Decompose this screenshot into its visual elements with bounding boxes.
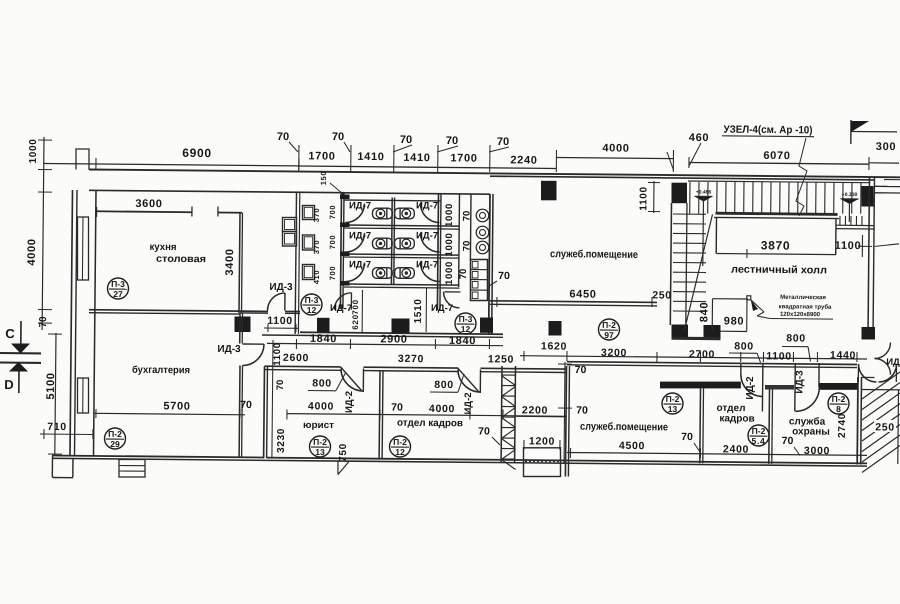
svg-text:П-2: П-2 [832, 394, 846, 404]
svg-text:6450: 6450 [569, 288, 596, 300]
svg-text:+0.466: +0.466 [696, 189, 712, 195]
svg-text:3000: 3000 [804, 445, 830, 457]
svg-text:70: 70 [575, 364, 587, 376]
svg-text:ИД-2: ИД-2 [463, 392, 474, 414]
svg-text:700: 700 [328, 266, 337, 281]
svg-text:12: 12 [395, 447, 405, 457]
svg-text:ИД-3: ИД-3 [217, 344, 241, 355]
svg-text:70: 70 [391, 401, 403, 413]
svg-text:столовая: столовая [156, 254, 206, 265]
svg-text:ИД-7: ИД-7 [349, 230, 371, 241]
svg-text:3200: 3200 [601, 347, 627, 359]
svg-text:370: 370 [312, 240, 321, 255]
svg-text:700: 700 [328, 235, 337, 250]
svg-text:70: 70 [277, 131, 289, 143]
svg-text:620: 620 [351, 314, 360, 330]
svg-text:П-2: П-2 [393, 437, 407, 447]
svg-text:ИД-7: ИД-7 [349, 200, 371, 211]
svg-text:D: D [4, 377, 14, 392]
svg-text:2900: 2900 [380, 333, 407, 345]
svg-text:12: 12 [307, 305, 317, 315]
svg-text:410: 410 [312, 270, 321, 285]
svg-text:6070: 6070 [763, 150, 790, 162]
svg-text:П-2: П-2 [108, 429, 122, 439]
svg-text:3870: 3870 [761, 238, 791, 252]
svg-text:750: 750 [338, 443, 349, 462]
svg-text:1410: 1410 [357, 151, 384, 163]
svg-text:2200: 2200 [522, 404, 548, 416]
svg-text:70: 70 [782, 435, 794, 447]
svg-text:300: 300 [876, 141, 897, 153]
svg-text:800: 800 [434, 379, 454, 391]
svg-text:800: 800 [312, 377, 332, 389]
svg-text:1510: 1510 [413, 298, 424, 323]
svg-text:1410: 1410 [403, 152, 430, 164]
svg-text:П-3: П-3 [459, 314, 473, 324]
svg-text:1100: 1100 [766, 350, 792, 362]
svg-text:250: 250 [652, 289, 672, 301]
svg-text:70: 70 [38, 316, 49, 328]
svg-text:Металлическая: Металлическая [780, 295, 826, 301]
svg-text:лестничный холл: лестничный холл [731, 264, 827, 277]
svg-text:П-2: П-2 [666, 394, 680, 404]
svg-text:3270: 3270 [398, 353, 424, 365]
svg-text:П-2: П-2 [752, 426, 766, 436]
svg-text:12: 12 [461, 324, 471, 334]
svg-text:ИД-7: ИД-7 [330, 303, 352, 314]
svg-text:3400: 3400 [224, 248, 236, 275]
svg-text:бухгалтерия: бухгалтерия [132, 364, 190, 377]
svg-text:П-3: П-3 [305, 295, 319, 305]
svg-text:800: 800 [786, 332, 806, 344]
svg-text:отдел кадров: отдел кадров [397, 418, 463, 430]
svg-text:70: 70 [461, 211, 472, 222]
svg-text:П-2: П-2 [313, 437, 327, 447]
svg-text:70: 70 [332, 131, 344, 143]
svg-text:1100: 1100 [638, 186, 649, 211]
svg-text:2600: 2600 [283, 352, 309, 364]
svg-text:97: 97 [604, 330, 614, 340]
svg-text:4000: 4000 [308, 400, 334, 412]
svg-text:120х120х8900: 120х120х8900 [780, 312, 821, 318]
svg-text:70: 70 [461, 241, 472, 252]
svg-text:980: 980 [724, 315, 745, 327]
svg-text:1250: 1250 [488, 353, 514, 365]
svg-text:4000: 4000 [26, 238, 38, 265]
svg-text:1100: 1100 [835, 240, 862, 252]
svg-text:служеб.помещение: служеб.помещение [550, 248, 638, 261]
svg-text:13: 13 [668, 404, 678, 414]
svg-text:УЗЕЛ-4(см. Ар -10): УЗЕЛ-4(см. Ар -10) [723, 124, 812, 137]
svg-text:840: 840 [698, 302, 710, 323]
svg-text:6900: 6900 [182, 146, 212, 160]
svg-text:1000: 1000 [444, 232, 455, 256]
svg-text:29: 29 [110, 439, 120, 449]
svg-text:150: 150 [319, 171, 328, 186]
svg-text:служеб.помещение: служеб.помещение [580, 421, 668, 434]
svg-text:2400: 2400 [723, 443, 749, 455]
svg-text:+0.308: +0.308 [842, 192, 858, 198]
svg-text:370: 370 [312, 208, 321, 223]
svg-text:1000: 1000 [28, 138, 39, 163]
svg-text:700: 700 [351, 299, 360, 315]
svg-text:ИД-7: ИД-7 [416, 259, 438, 270]
svg-text:2240: 2240 [510, 154, 537, 166]
svg-text:1440: 1440 [830, 349, 856, 361]
svg-text:2740: 2740 [837, 413, 848, 438]
svg-text:70: 70 [240, 399, 252, 411]
svg-text:1700: 1700 [450, 152, 477, 164]
svg-text:ИД-3: ИД-3 [269, 282, 293, 293]
svg-text:5700: 5700 [163, 400, 190, 412]
svg-text:квадратная труба: квадратная труба [779, 303, 832, 311]
svg-text:710: 710 [47, 421, 67, 433]
svg-text:ИД-3: ИД-3 [794, 370, 805, 394]
svg-text:ИД-7: ИД-7 [416, 230, 438, 241]
svg-text:4000: 4000 [429, 403, 455, 415]
svg-text:3230: 3230 [276, 428, 287, 453]
svg-text:70: 70 [576, 404, 588, 416]
svg-text:70: 70 [458, 269, 469, 280]
svg-text:1840: 1840 [449, 335, 476, 347]
svg-text:1000: 1000 [444, 261, 455, 285]
svg-text:ИД-7: ИД-7 [416, 200, 438, 211]
svg-text:800: 800 [734, 340, 754, 352]
svg-text:4500: 4500 [619, 440, 645, 452]
svg-text:1200: 1200 [529, 435, 555, 447]
svg-text:8: 8 [836, 404, 841, 414]
svg-text:700: 700 [328, 205, 337, 220]
svg-text:70: 70 [400, 134, 412, 146]
svg-text:1000: 1000 [444, 203, 455, 227]
svg-text:70: 70 [478, 425, 490, 437]
svg-text:13: 13 [315, 447, 325, 457]
svg-text:1100: 1100 [272, 342, 283, 366]
svg-text:27: 27 [113, 289, 123, 299]
svg-text:1620: 1620 [541, 340, 567, 352]
svg-text:70: 70 [446, 135, 458, 147]
svg-text:кадров: кадров [719, 413, 754, 424]
svg-text:П-3: П-3 [111, 279, 125, 289]
svg-text:ИД-2: ИД-2 [344, 391, 355, 413]
svg-text:П-2: П-2 [602, 320, 616, 330]
svg-text:70: 70 [275, 380, 286, 391]
svg-text:70: 70 [681, 431, 693, 443]
svg-text:кухня: кухня [149, 242, 176, 253]
svg-text:ИД-2: ИД-2 [745, 376, 756, 400]
svg-text:1840: 1840 [310, 333, 337, 345]
svg-text:4000: 4000 [602, 142, 629, 154]
svg-text:ИД-7: ИД-7 [349, 259, 371, 270]
svg-text:2700: 2700 [689, 348, 715, 360]
svg-text:1100: 1100 [267, 315, 293, 327]
svg-text:70: 70 [497, 136, 509, 148]
svg-text:ИД: ИД [886, 357, 900, 368]
svg-text:460: 460 [689, 132, 710, 144]
svg-text:юрист: юрист [303, 420, 334, 431]
svg-text:5100: 5100 [45, 372, 57, 399]
svg-text:5.4: 5.4 [752, 436, 766, 446]
svg-text:3600: 3600 [135, 198, 162, 210]
svg-text:1700: 1700 [308, 150, 335, 162]
svg-text:С: С [5, 326, 15, 341]
svg-text:охраны: охраны [792, 426, 830, 437]
svg-text:250: 250 [875, 421, 895, 433]
svg-text:70: 70 [498, 270, 510, 282]
